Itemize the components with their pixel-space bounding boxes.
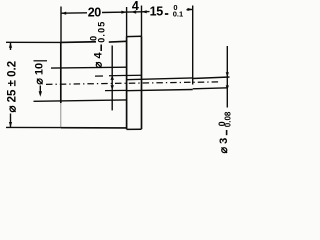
svg-text:0.1: 0.1 (173, 10, 183, 19)
flange right face (141, 36, 143, 129)
extension line x141.5 above flange (141, 6, 143, 37)
svg-text:4: 4 (132, 0, 139, 13)
arrow 15 right (188, 8, 193, 11)
dimension line d25 upper segment (10, 42, 12, 50)
svg-text:15: 15 (150, 4, 164, 18)
centerline dash-dot (46, 82, 219, 85)
arrow 20 left (61, 12, 66, 15)
body left edge upper (60, 42, 62, 103)
arrow d3 bottom (226, 85, 229, 90)
arrow 4 central blob (131, 10, 136, 13)
shaft d3 top line (193, 77, 230, 79)
d4 dimension line vertical (111, 46, 113, 111)
shaft d3 bottom line (193, 88, 228, 89)
d10 dimension leader line (39, 86, 41, 95)
bore d10 bottom line (34, 100, 127, 101)
flange left face (126, 37, 128, 130)
svg-text:0.05: 0.05 (96, 20, 106, 42)
extension line x126.6 above flange (126, 7, 128, 37)
arrow d4 up (111, 75, 114, 80)
svg-text:⌀ 25 ± 0.2: ⌀ 25 ± 0.2 (7, 61, 19, 113)
extension line x61 above body (60, 7, 62, 43)
body left edge lower faded (60, 103, 62, 128)
top dimension line segment 20 left (61, 12, 87, 14)
body top edge left part (61, 41, 96, 44)
arrow d25 bottom (9, 122, 12, 127)
bore d10 top line (51, 66, 127, 69)
svg-text:⌀ 3: ⌀ 3 (218, 138, 230, 154)
arrow 15 left (142, 10, 147, 13)
top dimension line segment 15 left (142, 11, 150, 13)
shaft d4 top line (127, 78, 193, 80)
hole d4 bottom line left of flange (105, 89, 127, 91)
svg-text:20: 20 (88, 5, 102, 19)
minus tick of d4 tolerance (rotated dash) (100, 45, 102, 52)
minus tick of d3 tolerance (rotated dash) (226, 130, 228, 135)
hole d4 top dash left (95, 75, 103, 77)
d3 dimension line (226, 46, 228, 108)
d10 upper short extension line (34, 60, 48, 62)
dimension line d25 lower segment (10, 114, 12, 128)
top dimension line segment 4 (127, 11, 142, 13)
svg-text:0.08: 0.08 (224, 111, 233, 127)
arrow d25 top (9, 43, 12, 48)
arrow d10 down (39, 91, 42, 97)
body bottom edge (61, 127, 127, 129)
arrow d3 top (226, 72, 229, 77)
extension line bottom of diameter 25 (6, 126, 61, 128)
svg-text:⌀ 10: ⌀ 10 (33, 63, 45, 85)
shaft d4 bottom line (127, 90, 193, 91)
arrow 20 right (121, 11, 126, 14)
arrow d4 down (111, 85, 114, 90)
svg-text:⌀ 4: ⌀ 4 (92, 52, 104, 69)
top dimension line segment 20 right (102, 11, 127, 13)
minus dash of 15 tolerance (165, 13, 168, 15)
top dimension line segment 15 right (187, 8, 193, 10)
hole d4 top line through flange (109, 74, 142, 77)
extension line top of diameter 25 (6, 41, 61, 43)
flange top edge (127, 35, 142, 37)
body top edge right part (109, 40, 127, 43)
flange bottom edge (127, 128, 142, 130)
step line and 15-dim right extension (192, 6, 194, 85)
